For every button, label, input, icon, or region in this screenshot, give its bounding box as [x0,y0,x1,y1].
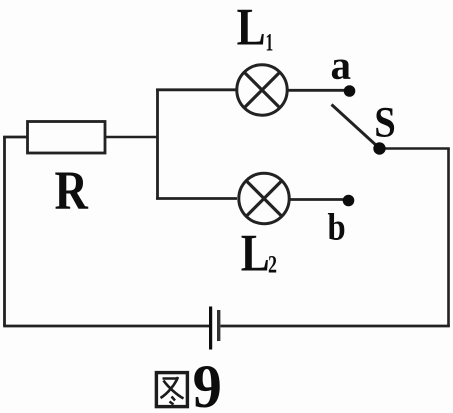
wire resistor left lead [3,136,27,139]
battery short plate [217,310,220,341]
wire right vertical [447,149,450,328]
switch S blade [332,105,378,147]
switch pivot dot [373,142,385,154]
svg-text:9: 9 [193,353,222,413]
wire L1 to contact a [289,89,346,92]
battery cell [209,307,220,350]
wire junction vertical [156,89,159,200]
wire battery to bottom right [221,325,450,328]
svg-text:1: 1 [266,29,274,57]
svg-text:b: b [328,205,346,248]
wire switch pivot to right corner [380,147,450,150]
resistor R [28,122,106,154]
wire left vertical [3,136,6,326]
svg-text:2: 2 [268,251,277,279]
node b dot [343,195,355,207]
wire L1 branch left [156,88,236,91]
wire resistor right lead [105,136,158,139]
battery long plate [209,307,212,350]
wire L2 branch left [156,197,237,200]
wire L2 to contact b [291,198,345,201]
svg-text:a: a [331,42,352,88]
node a dot [344,85,356,97]
lamp L2 [239,173,289,223]
svg-text:L: L [241,225,270,283]
caption 图 (drawn glyph) [156,373,187,407]
wire bottom left to battery [3,325,209,328]
svg-text:S: S [374,99,396,146]
svg-text:R: R [55,160,90,221]
svg-text:L: L [237,0,266,57]
lamp L1 [237,65,287,115]
